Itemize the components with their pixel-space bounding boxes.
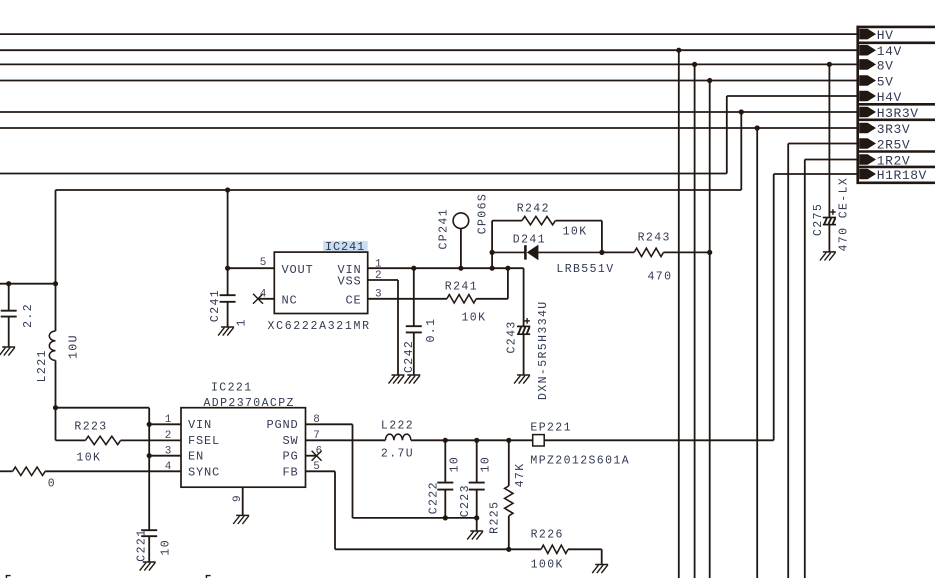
capacitor C243 polarized	[517, 318, 530, 334]
junction VIN-C242	[411, 266, 416, 271]
capacitor C242 stem	[413, 268, 415, 326]
wire C275 lower stem	[828, 225, 830, 252]
svg-text:PGND: PGND	[267, 418, 299, 432]
resistor R243	[634, 248, 663, 256]
junction VIN pin1	[147, 422, 152, 427]
wire cap2.2 stem	[8, 284, 10, 311]
resistor R225	[505, 486, 513, 516]
svg-text:MPZ2012S601A: MPZ2012S601A	[530, 454, 630, 467]
wire H4V branch left	[0, 173, 727, 175]
ground cap2.2	[0, 347, 15, 356]
junction VOUT	[225, 266, 230, 271]
wire R223 to FSEL	[121, 439, 181, 441]
junction L221-VIN	[53, 405, 58, 410]
wire H3R3V branch down to L221	[55, 190, 57, 331]
svg-text:R242: R242	[517, 202, 550, 215]
junction 8V-C275	[827, 62, 832, 67]
svg-text:CP241: CP241	[437, 208, 450, 250]
wire EP221 to H1R18V	[544, 439, 774, 441]
wire L222 to EP221	[411, 439, 533, 441]
wire HV rail	[0, 33, 859, 35]
svg-text:10: 10	[480, 456, 493, 473]
resistor R242	[522, 216, 555, 224]
svg-text:XC6222A321MR: XC6222A321MR	[268, 320, 371, 333]
wire C221 stem	[148, 536, 150, 562]
port arrow 14V	[859, 45, 876, 56]
capacitor C242	[406, 326, 422, 332]
port arrow 3R3V	[859, 123, 876, 134]
wire D241 to R243	[602, 251, 634, 253]
wire R242 row left	[492, 220, 522, 222]
capacitor C243 stem	[523, 268, 525, 326]
svg-text:1R2V: 1R2V	[877, 153, 910, 168]
svg-text:47K: 47K	[514, 462, 527, 487]
wire H3R3V rail	[0, 111, 859, 113]
port arrow 1R2V	[859, 154, 876, 165]
ground C275	[820, 252, 836, 261]
ground R226	[592, 565, 608, 574]
wire CP241 stem	[460, 229, 462, 269]
ground C221	[140, 562, 156, 571]
svg-text:R241: R241	[445, 280, 478, 293]
junction FB-R225	[506, 547, 511, 552]
svg-text:3R3V: 3R3V	[877, 122, 910, 137]
resistor R225 wires	[508, 440, 510, 486]
capacitor C241 stem	[227, 268, 229, 295]
svg-text:CP06S: CP06S	[477, 193, 490, 235]
no-connect X pin4	[253, 294, 263, 304]
junction rail-C222	[443, 515, 448, 520]
port arrow H4V	[859, 91, 876, 102]
wire input rail y284	[0, 283, 56, 285]
junction D241-anode	[490, 250, 495, 255]
svg-text:10: 10	[448, 456, 461, 473]
resistor R223	[85, 436, 120, 444]
svg-text:H3R3V: H3R3V	[877, 106, 919, 121]
svg-text:0.1: 0.1	[425, 318, 438, 343]
svg-text:C223: C223	[459, 484, 472, 517]
junction SW-C222	[443, 438, 448, 443]
wire H3R3V vertical	[740, 112, 742, 190]
svg-text:1: 1	[236, 318, 249, 326]
wire L221 to VIN node	[55, 360, 57, 407]
ground VSS	[389, 375, 405, 384]
svg-text:2R5V: 2R5V	[877, 137, 910, 152]
wire 2R5V to connector	[788, 143, 859, 145]
wire H3R3V branch	[56, 189, 742, 191]
svg-text:5: 5	[260, 257, 267, 269]
svg-text:C243: C243	[505, 320, 518, 353]
svg-text:VSS: VSS	[338, 275, 362, 289]
svg-text:2: 2	[165, 430, 172, 442]
port arrow H1R18V	[859, 169, 876, 180]
wire 14V vertical drop	[678, 50, 680, 578]
wire SYNC row	[0, 470, 13, 472]
inductor L222	[385, 434, 411, 440]
op-amp U IC241 body	[274, 252, 367, 313]
ground pin9	[233, 515, 249, 524]
wire VIN node rail y408	[56, 407, 150, 409]
wire 8V drop to C275	[828, 64, 830, 217]
junction 14V	[676, 48, 681, 53]
wire 8V vertical drop	[694, 64, 696, 578]
svg-text:0: 0	[48, 477, 56, 490]
svg-text:3: 3	[165, 445, 172, 457]
bottom edge mark right	[206, 576, 210, 578]
ferrite bead EP221	[533, 435, 545, 446]
svg-text:10U: 10U	[67, 334, 80, 359]
capacitor C222 stem	[444, 440, 446, 482]
svg-text:IC221: IC221	[211, 382, 253, 395]
junction 8V	[692, 62, 697, 67]
svg-text:EP221: EP221	[530, 422, 572, 435]
wire VOUT to IC241 pin5	[228, 267, 275, 269]
svg-text:EN: EN	[188, 450, 204, 464]
svg-text:10K: 10K	[76, 452, 101, 465]
svg-text:470 CE-LX: 470 CE-LX	[838, 177, 851, 252]
wire 8V rail	[0, 63, 859, 65]
svg-text:LRB551V: LRB551V	[556, 263, 614, 276]
ground C243	[514, 375, 530, 384]
wire VSS pin2	[368, 279, 398, 281]
wire pin1	[149, 423, 181, 425]
wire R242 right	[555, 220, 602, 222]
wire pin3	[149, 455, 181, 457]
wire H4V to connector	[727, 95, 859, 97]
svg-text:PG: PG	[283, 450, 299, 464]
svg-text:D241: D241	[513, 234, 546, 247]
inductor L221	[49, 331, 55, 360]
svg-text:8V: 8V	[877, 58, 894, 73]
wire PGND pin8	[306, 423, 353, 425]
wire D241 node vertical	[491, 221, 493, 269]
wire 3R3V rail	[0, 127, 859, 129]
ground rail	[467, 531, 483, 540]
wire to R223	[56, 439, 86, 441]
junction input-cap	[6, 281, 11, 286]
svg-text:NC: NC	[282, 294, 298, 308]
wire R243 to 5V bus	[664, 251, 710, 253]
capacitor 2.2	[1, 311, 17, 317]
svg-text:C221: C221	[136, 528, 149, 561]
bottom edge mark left	[6, 576, 10, 578]
wire 1R2V vertical drop	[804, 160, 806, 578]
port arrow HV	[859, 29, 876, 40]
svg-text:1: 1	[165, 414, 172, 426]
junction VIN-D241	[490, 266, 495, 271]
connector block frame	[857, 26, 935, 184]
wire H1R18V vertical	[773, 174, 775, 440]
wire rail gnd stem	[476, 518, 478, 531]
junction 5V	[707, 78, 712, 83]
wire 3R3V vertical drop	[756, 128, 758, 578]
svg-text:5V: 5V	[877, 74, 894, 89]
wire VOUT net y190 junction	[225, 187, 230, 192]
svg-text:C242: C242	[403, 340, 416, 373]
junction input-L221	[53, 281, 58, 286]
wire NC stub	[258, 298, 274, 300]
svg-text:470: 470	[648, 270, 673, 283]
wire CE pin3	[368, 298, 447, 300]
wire ground rail	[353, 517, 477, 519]
junction R243-5V	[707, 250, 712, 255]
svg-text:VIN: VIN	[188, 418, 212, 432]
IC221 body	[181, 408, 306, 488]
IC241 highlight	[323, 241, 368, 251]
capacitor C223 stem	[476, 440, 478, 482]
svg-text:CE: CE	[346, 294, 362, 308]
svg-text:4: 4	[260, 288, 267, 300]
svg-text:10K: 10K	[563, 226, 588, 239]
wire pin9 stub	[242, 487, 244, 515]
svg-text:R226: R226	[531, 528, 564, 541]
wire 1R2V to connector	[805, 159, 859, 161]
junction SW-R225	[506, 438, 511, 443]
svg-text:HV: HV	[877, 28, 894, 43]
svg-text:2.2: 2.2	[22, 303, 35, 328]
capacitor C221	[141, 530, 157, 536]
svg-text:L221: L221	[36, 349, 49, 382]
port arrow H3R3V	[859, 107, 876, 118]
svg-text:L222: L222	[381, 419, 414, 432]
wire R241 to VIN	[476, 298, 508, 300]
wire H1R18V to connector	[774, 173, 859, 175]
svg-text:SYNC: SYNC	[188, 465, 220, 479]
svg-text:VOUT: VOUT	[282, 263, 314, 277]
svg-text:DXN-5R5H334U: DXN-5R5H334U	[537, 300, 550, 400]
junction R242-D241	[599, 250, 604, 255]
wire FB row	[335, 548, 541, 550]
svg-text:FB: FB	[283, 465, 299, 479]
port arrow 2R5V	[859, 138, 876, 149]
junction VIN-R241	[505, 266, 510, 271]
svg-text:100K: 100K	[531, 558, 564, 571]
wire R226 to ground	[568, 548, 602, 550]
wire 5V vertical drop	[709, 81, 711, 578]
svg-text:SW: SW	[283, 434, 299, 448]
no-connect X PG pin6	[312, 451, 322, 461]
junction H3R3V	[739, 109, 744, 114]
wire SW pin7	[306, 439, 386, 441]
port arrow 8V	[859, 59, 876, 70]
svg-text:FSEL: FSEL	[188, 434, 220, 448]
diode D241	[492, 245, 602, 261]
svg-text:R223: R223	[74, 420, 107, 433]
svg-text:10K: 10K	[462, 312, 487, 325]
ground C242	[404, 375, 420, 384]
resistor R241	[447, 295, 476, 303]
svg-text:10: 10	[159, 539, 172, 556]
wire IC221 left vertical	[148, 408, 150, 531]
wire PG stub	[306, 455, 317, 457]
wire H4V vertical	[726, 96, 728, 174]
resistor R226	[541, 545, 568, 553]
junction rail-C223	[474, 515, 479, 520]
junction EN pin3	[147, 453, 152, 458]
svg-text:R243: R243	[638, 232, 671, 245]
wire VIN pin1	[368, 267, 524, 269]
test point CP241	[453, 213, 469, 229]
wire 2R5V vertical drop	[787, 144, 789, 578]
svg-text:C241: C241	[209, 289, 222, 322]
svg-text:14V: 14V	[877, 44, 902, 59]
resistor R-0	[13, 467, 46, 475]
wire VIN node down	[55, 408, 57, 441]
capacitor C275 polarized	[823, 209, 836, 224]
junction VIN-CP241	[458, 266, 463, 271]
svg-text:H1R18V: H1R18V	[877, 168, 927, 183]
wire FB pin5	[306, 470, 336, 472]
wire VOUT vertical	[227, 190, 229, 268]
wire 5V rail	[0, 80, 859, 82]
svg-text:R225: R225	[489, 501, 502, 534]
svg-text:2.7U: 2.7U	[381, 448, 414, 461]
svg-text:ADP2370ACPZ: ADP2370ACPZ	[204, 397, 295, 410]
svg-text:4: 4	[165, 461, 172, 473]
svg-text:C222: C222	[427, 481, 440, 514]
svg-text:H4V: H4V	[877, 90, 902, 105]
capacitor C222	[437, 483, 453, 490]
ground C241	[218, 327, 234, 336]
junction SW-C223	[474, 438, 479, 443]
wire 14V rail	[0, 49, 859, 51]
port arrow 5V	[859, 75, 876, 86]
capacitor C241	[220, 295, 236, 302]
capacitor C223	[469, 483, 485, 490]
svg-text:C275: C275	[812, 203, 825, 236]
junction 3R3V	[755, 125, 760, 130]
